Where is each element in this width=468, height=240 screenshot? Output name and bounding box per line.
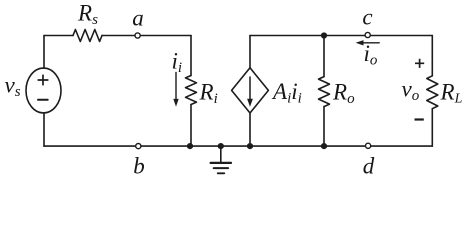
wire controlled-source vertical leads (249, 36, 251, 147)
svg-text:Ro: Ro (332, 80, 355, 108)
svg-text:vo: vo (402, 77, 420, 105)
label vo plus sign (415, 59, 424, 68)
svg-text:io: io (364, 41, 378, 69)
label RL (440, 80, 463, 107)
svg-text:RL: RL (440, 80, 463, 107)
svg-text:Aiii: Aiii (271, 79, 302, 107)
svg-text:vs: vs (5, 73, 21, 101)
label node d (363, 154, 375, 179)
svg-text:Rs: Rs (77, 1, 98, 29)
wire top-right rail from controlled source to R_L (250, 35, 432, 37)
svg-text:d: d (363, 154, 375, 179)
wire R_o vertical leads (323, 36, 325, 147)
wire bottom rail (44, 145, 432, 147)
node b terminal (136, 144, 141, 149)
junction dot Ri bottom (187, 143, 193, 149)
label Rs (77, 1, 98, 29)
label node a (132, 6, 144, 31)
junction dot controlled source bottom (247, 143, 253, 149)
wire R_L vertical leads (431, 36, 433, 147)
label Ro (332, 80, 355, 108)
resistor Ri (186, 76, 197, 105)
resistor RL (427, 76, 438, 109)
label vo minus sign (415, 118, 424, 120)
current arrow io (356, 40, 380, 45)
svg-text:a: a (132, 6, 144, 31)
wire R_i vertical leads (190, 36, 192, 147)
svg-text:b: b (133, 154, 145, 179)
wire top-left rail from source to R_i (44, 35, 191, 37)
voltage source vs (26, 68, 61, 113)
label node b (133, 154, 145, 179)
ground (211, 146, 231, 173)
label ii (172, 49, 183, 77)
label io (364, 41, 378, 69)
node a terminal (135, 33, 140, 38)
svg-text:c: c (362, 4, 372, 29)
junction dot Ro top (321, 32, 327, 38)
label node c (362, 4, 372, 29)
svg-text:Ri: Ri (199, 79, 218, 107)
wire left vertical source leads (43, 36, 45, 147)
node d terminal (366, 143, 371, 148)
resistor Ro (319, 77, 330, 107)
label Ai ii (271, 79, 302, 107)
junction dot ground tap (218, 143, 224, 149)
svg-text:ii: ii (172, 49, 183, 77)
label Ri (199, 79, 218, 107)
node c terminal (365, 32, 370, 37)
junction dot Ro bottom (321, 143, 327, 149)
label vs (5, 73, 21, 101)
current arrow ii (173, 73, 178, 107)
controlled current source Ai*ii (diamond) (232, 68, 269, 113)
label vo (402, 77, 420, 105)
resistor Rs (73, 30, 102, 42)
